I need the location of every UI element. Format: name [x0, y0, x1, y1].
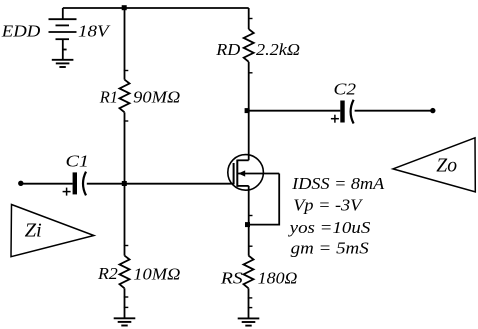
pin tick RS bottom	[248, 297, 253, 299]
arrow of Q1 bulk	[238, 170, 245, 176]
wire R1 branch upper	[124, 8, 126, 80]
wire C1 to gate junction	[87, 183, 125, 185]
svg-text:IDSS = 8mA: IDSS = 8mA	[291, 174, 385, 193]
pin tick RS top	[248, 245, 253, 247]
svg-text:Vp = -3V: Vp = -3V	[293, 196, 364, 215]
wire drain to C2	[249, 110, 341, 112]
input terminal dot	[18, 181, 23, 186]
svg-text:EDD: EDD	[1, 22, 41, 41]
node: drain junction	[245, 108, 250, 113]
capacitor C2	[340, 100, 353, 124]
wire gate junction to transistor gate	[125, 183, 234, 185]
pin tick RD top	[248, 18, 253, 20]
output terminal dot	[430, 108, 435, 113]
wire RS to ground	[248, 288, 250, 318]
pin tick ground R2	[124, 306, 129, 308]
svg-text:RD: RD	[215, 40, 241, 59]
svg-text:180Ω: 180Ω	[258, 268, 298, 287]
pin tick R2 bottom	[124, 296, 129, 298]
pin tick source	[248, 215, 253, 217]
svg-text:R2: R2	[97, 264, 118, 283]
svg-text:Zi: Zi	[25, 219, 42, 241]
svg-text:R1: R1	[99, 88, 118, 107]
wire source lead down	[248, 186, 250, 256]
svg-text:yos =10uS: yos =10uS	[287, 218, 370, 237]
resistor R1	[120, 80, 130, 113]
node: gate junction	[122, 181, 127, 186]
battery EDD	[49, 8, 77, 60]
ground (R2)	[114, 318, 136, 325]
resistor RD	[244, 29, 254, 62]
svg-text:gm = 5mS: gm = 5mS	[291, 239, 370, 258]
wire R1 to gate node	[124, 112, 126, 255]
node: source junction	[245, 222, 250, 227]
wire bulk loop	[249, 174, 280, 225]
wire RD to drain	[248, 62, 250, 160]
pin tick R2 top	[124, 245, 129, 247]
svg-text:C2: C2	[334, 79, 357, 98]
wire C2 to output	[355, 110, 433, 112]
plus sign C1	[63, 188, 71, 196]
svg-text:18V: 18V	[78, 22, 112, 41]
pin tick R1 bottom	[124, 120, 129, 122]
wire RD branch top	[248, 8, 250, 29]
Zi triangle	[11, 205, 94, 257]
svg-text:Zo: Zo	[436, 155, 457, 177]
pin tick ground RS	[248, 307, 253, 309]
svg-text:2.2kΩ: 2.2kΩ	[256, 40, 300, 59]
wire input to C1	[21, 183, 73, 185]
svg-text:C1: C1	[66, 151, 90, 170]
pin tick R1 top	[124, 70, 129, 72]
pin tick RD bottom	[248, 72, 253, 74]
resistor RS	[244, 256, 254, 289]
ground (battery)	[52, 60, 74, 67]
capacitor C1	[73, 172, 86, 196]
wire R2 to ground	[124, 288, 126, 318]
node: rail/R1 junction	[122, 5, 127, 10]
svg-text:90MΩ: 90MΩ	[133, 88, 180, 107]
svg-text:10MΩ: 10MΩ	[133, 264, 180, 283]
Zo triangle	[393, 138, 475, 192]
transistor Q1	[228, 155, 279, 191]
svg-text:RS: RS	[220, 269, 244, 288]
wire top rail	[63, 7, 249, 9]
plus sign C2	[331, 115, 339, 123]
resistor R2	[120, 256, 130, 289]
ground (RS)	[238, 318, 260, 325]
